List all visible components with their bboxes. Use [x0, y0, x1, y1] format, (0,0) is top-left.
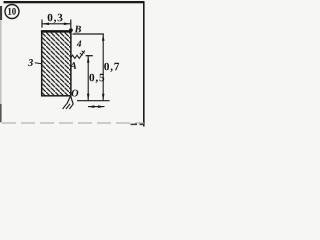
- label B: [75, 26, 82, 33]
- dimension 0,3 right extension tick: [70, 20, 72, 29]
- pivot support at O: [67, 96, 73, 104]
- leader line from 3 to plate: [35, 63, 42, 64]
- label O: [72, 90, 79, 97]
- problem number circle: [5, 5, 19, 19]
- dimension 0,5 top arrowhead: [87, 56, 90, 63]
- spring 4 zigzag at point A: [71, 51, 85, 59]
- dimension 0,5 bottom arrowhead: [87, 94, 90, 101]
- wire from B to 0,7 dimension line: [73, 33, 104, 35]
- plate body 3 (hatched rectangle): [42, 31, 71, 95]
- dimension 0,3 left arrowhead: [42, 23, 49, 26]
- dimension 0,7 label: [104, 63, 119, 72]
- pivot ground hatch 3: [69, 104, 73, 109]
- frame left border: [0, 8, 2, 123]
- label A: [69, 62, 76, 69]
- ground baseline bottom right: [77, 100, 110, 102]
- frame right border: [143, 2, 145, 127]
- frame top border: [4, 1, 145, 3]
- dimension 0,7 bottom arrowhead: [102, 94, 105, 101]
- problem number 10: [8, 8, 16, 15]
- spring tick marks: [80, 53, 83, 55]
- pivot ground hatch 2: [66, 104, 70, 109]
- frame bottom border: [2, 122, 144, 124]
- label 3: [28, 59, 33, 66]
- plate top edge thick: [41, 30, 72, 33]
- dimension 0,7 top arrowhead: [102, 34, 105, 41]
- label 4: [77, 41, 82, 47]
- dimension 0,3 left extension tick: [41, 20, 43, 28]
- dimension 0,5 vertical line: [87, 56, 89, 101]
- bottom double arrow: [88, 106, 105, 108]
- dimension 0,3 right arrowhead: [64, 23, 71, 26]
- pivot ground hatch 1: [63, 104, 67, 109]
- dimension 0,3 line: [42, 23, 71, 25]
- dimension 0,5 label: [89, 74, 104, 83]
- dimension 0,5 top tick: [86, 55, 93, 57]
- point B dot: [69, 28, 73, 32]
- dimension 0,7 vertical line: [102, 34, 104, 100]
- dimension 0,3 label: [48, 14, 63, 23]
